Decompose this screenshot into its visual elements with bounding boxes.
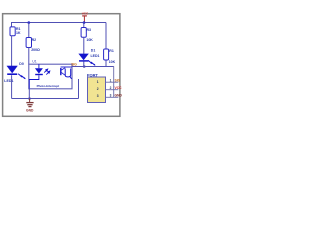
border frame — [3, 14, 120, 117]
svg-text:3: 3 — [110, 94, 112, 98]
wire R3 to D1 — [83, 37, 85, 54]
wire R2 branch — [28, 23, 30, 38]
connector PORT body — [88, 77, 106, 103]
resistor R1 (pull-up) — [104, 49, 116, 64]
pin 1 — [97, 78, 121, 84]
wire D1 to sig rail — [83, 62, 85, 67]
resistor R2 — [26, 38, 40, 52]
svg-text:200Ω: 200Ω — [31, 48, 40, 52]
svg-text:SIG: SIG — [115, 78, 121, 82]
photo-interrupter box U1 — [29, 64, 72, 89]
svg-text:3: 3 — [97, 94, 99, 98]
ground — [26, 99, 34, 113]
svg-text:2: 2 — [97, 87, 99, 91]
in-box IR LED stub — [38, 64, 40, 68]
wire top rail VCC — [12, 23, 107, 28]
svg-text:GND: GND — [115, 94, 123, 98]
wire bottom gnd rail — [12, 98, 79, 100]
wire SIG to pin1 vertical — [113, 66, 115, 97]
node R2 junction — [28, 21, 31, 24]
svg-text:10K: 10K — [86, 38, 93, 42]
phototransistor Q1 — [61, 67, 73, 78]
resistor R1 — [10, 27, 21, 36]
svg-text:VCC: VCC — [115, 86, 123, 90]
svg-text:U1: U1 — [32, 60, 37, 64]
svg-text:Photo-Interrupt: Photo-Interrupt — [37, 84, 60, 88]
wire LED1 cathode down — [11, 75, 13, 98]
wire emitter drop — [78, 79, 80, 99]
svg-text:SIG: SIG — [71, 63, 77, 67]
node SIG junction — [83, 65, 86, 68]
svg-text:1: 1 — [97, 80, 99, 84]
svg-text:R2: R2 — [32, 38, 37, 42]
pin 3 — [97, 94, 123, 99]
pin 2 — [97, 86, 122, 91]
wire SIG horizontal — [72, 66, 114, 68]
svg-text:R1: R1 — [109, 49, 114, 53]
svg-text:GND: GND — [26, 108, 34, 112]
wire box cathode pin to GND junction — [28, 89, 30, 99]
node VCC junction — [83, 21, 86, 24]
in-box IR LED — [35, 68, 43, 74]
in-box cathode route — [29, 75, 39, 88]
svg-text:1: 1 — [110, 78, 112, 82]
svg-text:LED1: LED1 — [4, 79, 13, 83]
svg-text:1K: 1K — [16, 31, 21, 35]
wire VCC to R3 — [83, 23, 85, 29]
svg-text:D0: D0 — [19, 62, 24, 66]
resistor R3 — [81, 28, 93, 43]
wire right branch to pullup — [105, 23, 107, 50]
node gnd junction — [28, 97, 31, 100]
wire pullup bottom to SIG — [105, 60, 107, 67]
svg-text:R3: R3 — [87, 28, 92, 32]
svg-text:10K: 10K — [109, 60, 116, 64]
in-box light arrows — [44, 69, 50, 75]
LED D1 — [78, 54, 95, 66]
svg-text:VCC: VCC — [82, 12, 89, 16]
svg-text:2: 2 — [110, 86, 112, 90]
wire R1 to LED1 — [11, 36, 13, 67]
svg-text:D1: D1 — [91, 48, 96, 52]
wire R2 to box — [28, 48, 30, 65]
LED LED1 — [7, 66, 26, 79]
svg-text:LED1: LED1 — [91, 54, 100, 58]
power VCC — [82, 12, 89, 23]
